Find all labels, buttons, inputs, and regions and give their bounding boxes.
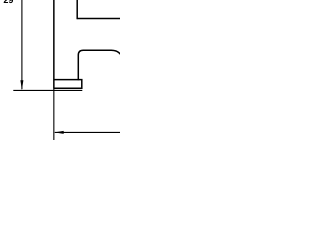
arrowhead down: [20, 80, 23, 90]
part edge: inner vertical (thick, top): [76, 0, 78, 19]
dimension line (vertical, for 29): [21, 0, 23, 89]
part edge: left vertical (thick): [53, 0, 55, 89]
part profile: fillet, shelf, right fillet (thick): [78, 50, 121, 80]
flange box: top, right, bottom edges (thick): [54, 80, 82, 89]
arrowhead left: [54, 131, 63, 134]
dimension line (horizontal, bottom): [55, 131, 121, 133]
extension line continuation of left vertical (thin, down to below dim): [53, 89, 55, 140]
extension line (horizontal, under part): [13, 89, 82, 91]
dimension label 29 (cut off at top): [4, 0, 13, 3]
part edge: top horizontal shoulder: [77, 18, 121, 20]
